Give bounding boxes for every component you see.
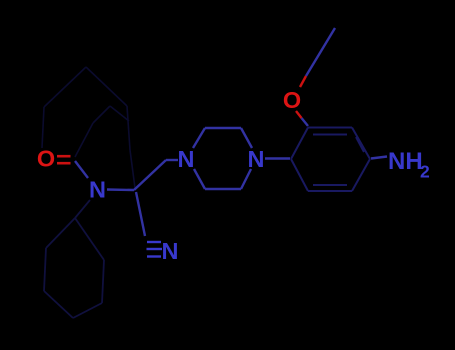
bond CH2-N1 (horizontal into piperazine N): [166, 159, 178, 161]
bond O-CH3 (methyl half): [306, 28, 335, 76]
bond N2-phenyl: [265, 157, 290, 159]
bond C-N (lactam): [75, 161, 88, 178]
bond C4-NH2: [371, 157, 387, 159]
svg-text:N: N: [162, 238, 179, 264]
svg-text:O: O: [37, 146, 55, 172]
bond CH-CN (steep, to nitrile): [136, 192, 145, 236]
bond C2-O (carbon half): [302, 118, 309, 126]
benzene ring: [291, 128, 370, 192]
inner aromatic lines: [313, 134, 347, 136]
svg-text:2: 2: [420, 162, 430, 182]
nitrile triple bond: [147, 242, 163, 257]
svg-text:N: N: [178, 146, 195, 172]
svg-text:N: N: [89, 177, 106, 203]
bond CH-CH2 (diagonal to piperazine): [134, 160, 166, 190]
bond C2-O (oxygen half): [296, 111, 302, 118]
piperazine ring bonds: [193, 128, 252, 189]
svg-text:NH: NH: [388, 148, 423, 175]
C=O double bond: [57, 156, 71, 163]
bond O-CH3 (oxygen half): [300, 76, 306, 87]
bond N-CH (horizontal): [107, 188, 134, 191]
svg-text:N: N: [248, 146, 265, 172]
cyclohexane ring (top-left, faint): [42, 67, 135, 188]
svg-text:O: O: [283, 87, 301, 113]
cyclohexane ring (bottom-left, faint): [44, 200, 104, 318]
